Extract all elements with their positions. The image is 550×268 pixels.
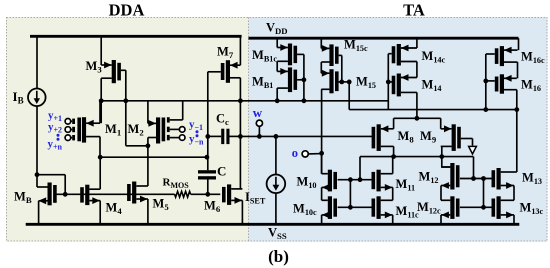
- wire gate riser: [349, 180, 351, 208]
- ISET label: [245, 190, 266, 206]
- wire M10c source to rail: [321, 215, 323, 224]
- wire MB1 gates riser: [303, 54, 305, 100]
- wire MB1 source to bus: [276, 88, 278, 101]
- wire M11 drain riser: [392, 157, 394, 174]
- IB label: [13, 89, 24, 106]
- M5 label: [153, 197, 170, 213]
- node MB1 gate join: [302, 77, 307, 82]
- transistor M16: [486, 74, 517, 93]
- transistor M11: [372, 170, 393, 192]
- M11c label: [396, 204, 420, 220]
- wire ISET top: [275, 136, 277, 174]
- svg-text:DDA: DDA: [109, 0, 145, 19]
- svg-text:TA: TA: [403, 0, 425, 19]
- bottom VSS rail: [26, 223, 520, 226]
- M9 label: [420, 129, 437, 145]
- DDA region background: [6, 17, 249, 242]
- wire M4 drain up: [99, 157, 101, 189]
- node o line: [319, 151, 324, 156]
- node ISET top: [274, 134, 279, 139]
- wire gate line M12 M13: [460, 178, 493, 180]
- wire IB to MB drain node: [36, 106, 38, 175]
- node M3 drain bus: [99, 98, 104, 103]
- wire MB1c source to MB1 drain: [276, 61, 278, 71]
- wire M16 source down to bias line: [516, 90, 518, 110]
- transistor M10c: [322, 196, 337, 219]
- wire bias line lower: [349, 109, 517, 111]
- wire M14c source to M14 drain: [416, 62, 418, 78]
- M13c label: [520, 201, 544, 217]
- transistor M12c: [441, 196, 460, 219]
- node M16 source bias: [514, 107, 519, 112]
- wire M4 source to rail: [99, 201, 101, 225]
- M2 input circles: [170, 127, 185, 141]
- svg-text:C: C: [217, 164, 226, 179]
- wire M10 source to M10c drain: [321, 187, 323, 200]
- transistor MB1c: [277, 44, 304, 66]
- transistor M4: [80, 185, 100, 205]
- current source IB: [28, 89, 46, 107]
- M2 label: [128, 122, 144, 138]
- wire M7 drain down to M6: [239, 78, 241, 189]
- terminal w: [256, 120, 262, 136]
- node gate riser bottom: [348, 205, 353, 210]
- wire M3 gate stub to M2 source: [126, 145, 148, 147]
- node M3 gate bus junction: [123, 98, 128, 103]
- wire M7 gate drop: [207, 72, 209, 170]
- terminal o: [302, 151, 322, 157]
- resistor RMOS: [175, 191, 191, 197]
- VSS label: [268, 226, 287, 242]
- wire M13 source to M13c drain: [513, 186, 515, 201]
- input label y-n: [189, 133, 204, 147]
- wire RMOS to M6 gate: [191, 193, 221, 195]
- wire node line M1 M4 to C: [100, 156, 207, 158]
- wire M11 source to M11c drain: [392, 187, 394, 200]
- wire M12c source to rail: [440, 215, 442, 224]
- wire M9 source down: [441, 146, 443, 156]
- node M1 source M4 drain: [98, 155, 103, 160]
- M14 label: [422, 78, 442, 94]
- transistor M3: [101, 60, 126, 83]
- wire bias bus: [101, 100, 388, 102]
- wire gate line lower: [338, 206, 373, 208]
- title DDA: [109, 0, 145, 19]
- wire M16c source to M16 drain: [517, 62, 519, 78]
- M16c label: [521, 49, 545, 65]
- svg-text:(b): (b): [268, 247, 289, 266]
- M10 label: [297, 175, 317, 191]
- wire M3 drain down: [100, 78, 102, 123]
- wire bias bus drop: [387, 54, 389, 110]
- wire M3 gate drop: [125, 70, 127, 146]
- Cc label: [216, 112, 229, 128]
- node gate line riser: [347, 80, 352, 85]
- wire M5 source to rail: [147, 199, 149, 224]
- wire M3 source to rail: [100, 36, 102, 65]
- svg-text:o: o: [292, 146, 298, 160]
- VDD label: [266, 21, 288, 37]
- MB label: [14, 190, 32, 206]
- wire M8 source down: [393, 146, 395, 156]
- transistor M6: [222, 184, 242, 205]
- transistor M14c: [388, 44, 417, 66]
- M15c label: [344, 38, 368, 54]
- wire gate line M12c M13c: [460, 206, 493, 208]
- transistor M11c: [372, 196, 393, 219]
- capacitor Cc: [208, 129, 241, 144]
- M14c label: [422, 49, 446, 65]
- wire M14 source down: [416, 92, 418, 118]
- node M16 gate join: [483, 79, 488, 84]
- transistor M8: [372, 124, 394, 151]
- input label y+n: [48, 138, 63, 152]
- node M2 source stub: [146, 143, 151, 148]
- transistor M10: [322, 170, 337, 192]
- node MB1 source bus: [275, 98, 280, 103]
- transistor MB: [48, 183, 57, 206]
- wire M2 drain up: [147, 101, 149, 124]
- M6 label: [204, 199, 221, 215]
- wire M2 bulk stub riser: [170, 101, 183, 120]
- node RMOS M6 C junction: [205, 192, 210, 197]
- wire w line: [240, 135, 372, 137]
- transistor M12: [441, 163, 460, 190]
- wire M6 source to rail: [241, 200, 243, 224]
- transistor M13c: [492, 196, 515, 219]
- wire M13c source to rail: [513, 215, 515, 224]
- M7 label: [217, 45, 234, 61]
- DDA/TA divider line: [248, 18, 250, 242]
- title TA: [403, 0, 425, 19]
- input dots right: [196, 130, 199, 137]
- wire MB source to rail: [38, 201, 40, 225]
- node gates riser bus: [302, 98, 307, 103]
- svg-text:w: w: [253, 105, 263, 120]
- M10c label: [293, 202, 317, 218]
- wire M14 gate stub: [388, 81, 392, 83]
- transistor M13: [492, 168, 515, 190]
- transistor M2: [148, 117, 170, 143]
- node lower riser join: [481, 176, 486, 181]
- node lower gate join: [481, 205, 486, 210]
- node Cc right M6 drain: [238, 134, 243, 139]
- capacitor C: [198, 170, 216, 194]
- wire rail to IB: [36, 36, 38, 88]
- DDA top rail: [30, 35, 242, 38]
- wire M7 source to rail: [239, 36, 241, 65]
- wire MB diode tie horizontal: [37, 174, 65, 176]
- node line into C stem: [205, 155, 210, 160]
- node M8 source: [391, 154, 396, 159]
- TA region background: [249, 17, 548, 242]
- node w stem: [257, 134, 262, 139]
- o label: [292, 146, 298, 160]
- transistor M14: [392, 74, 417, 97]
- node M14 gate join: [386, 80, 391, 85]
- wire folded node line: [360, 156, 474, 158]
- M15 label: [356, 75, 376, 91]
- M13 label: [522, 171, 542, 187]
- input label y+2: [48, 121, 62, 135]
- wire rail to M14c: [416, 38, 418, 48]
- wire M2 source down to M5 drain: [147, 138, 149, 187]
- wire M13 drain riser: [514, 171, 517, 173]
- wire ISET to rail: [275, 193, 277, 224]
- TA VDD rail: [249, 37, 519, 40]
- node M15c gate join: [339, 80, 344, 85]
- M11 label: [396, 177, 416, 193]
- wire rail corner to M16c: [518, 38, 520, 50]
- transistor M1: [72, 117, 100, 142]
- M8 gate from w line: [372, 135, 374, 137]
- node MB drain junction: [35, 172, 40, 177]
- wire M12 source to M12c drain: [440, 186, 442, 201]
- node gate riser top: [348, 177, 353, 182]
- node folded right join: [471, 176, 476, 181]
- wire rail to MB1c: [276, 38, 278, 47]
- wire M1 drain up: [99, 101, 101, 123]
- wire M13 drain drop: [516, 110, 518, 172]
- M1 label: [105, 122, 121, 138]
- wire M8 drain riser: [393, 118, 395, 129]
- M16 label: [521, 77, 541, 93]
- node M7 bias bus: [238, 98, 243, 103]
- MB1c label: [252, 48, 277, 64]
- node M9 source: [439, 154, 444, 159]
- wire gate bus: [56, 193, 175, 195]
- wire M9 gate drop with arrow: [469, 139, 477, 155]
- MB source arrow lead: [38, 197, 47, 204]
- caption (b): [268, 247, 289, 266]
- wire M11c source to rail: [392, 215, 394, 224]
- wire bias riser: [348, 82, 350, 110]
- wire M1 source down: [99, 137, 101, 158]
- input dots left: [57, 134, 60, 141]
- wire M15 source down to o node and M10: [321, 89, 323, 173]
- M12c label: [417, 200, 441, 216]
- wire folded right drop: [473, 157, 475, 179]
- transistor M5: [127, 182, 148, 204]
- wire M15 gate to riser: [338, 81, 350, 83]
- wire M15c gate drop: [341, 55, 343, 82]
- wire folded left drop: [359, 157, 361, 180]
- w label: [253, 105, 263, 120]
- RMOS label: [163, 177, 190, 191]
- wire MB diode tie vertical: [64, 175, 66, 195]
- transistor M16c: [486, 46, 518, 66]
- node M14 source M8 M9: [415, 116, 420, 121]
- input label y+1: [48, 110, 62, 124]
- M8 label: [398, 129, 415, 145]
- transistor M9: [441, 124, 473, 151]
- input label y-1: [189, 119, 203, 133]
- node M16 riser bias: [483, 107, 488, 112]
- wire gate line upper: [338, 179, 373, 181]
- wire M16 gates riser: [485, 54, 487, 110]
- wire M8 M9 drain tee: [394, 117, 441, 119]
- C label: [217, 164, 226, 179]
- wire M9 to M12 drain: [441, 157, 443, 167]
- current source ISET: [267, 175, 286, 194]
- wire M15c source to M15 drain: [320, 62, 322, 73]
- wire MB drain jog: [37, 175, 48, 187]
- wire riser M12c M13c gates: [483, 179, 485, 208]
- node gate bus junction: [63, 192, 68, 197]
- wire M9 drain riser: [440, 118, 442, 129]
- transistor M15c: [321, 44, 342, 66]
- M12 label: [419, 170, 439, 186]
- wire rail to M15c: [320, 38, 322, 48]
- MB1 label: [252, 75, 273, 91]
- M3 label: [86, 59, 103, 75]
- node compensation Cc left: [205, 134, 210, 139]
- transistor M15: [321, 69, 338, 93]
- transistor MB1: [277, 67, 304, 92]
- M1 input circles: [65, 119, 72, 141]
- transistor M7: [208, 60, 241, 83]
- wire M15 to M10 drain: [321, 153, 323, 173]
- M4 label: [106, 201, 123, 217]
- node folded drop join: [358, 177, 363, 182]
